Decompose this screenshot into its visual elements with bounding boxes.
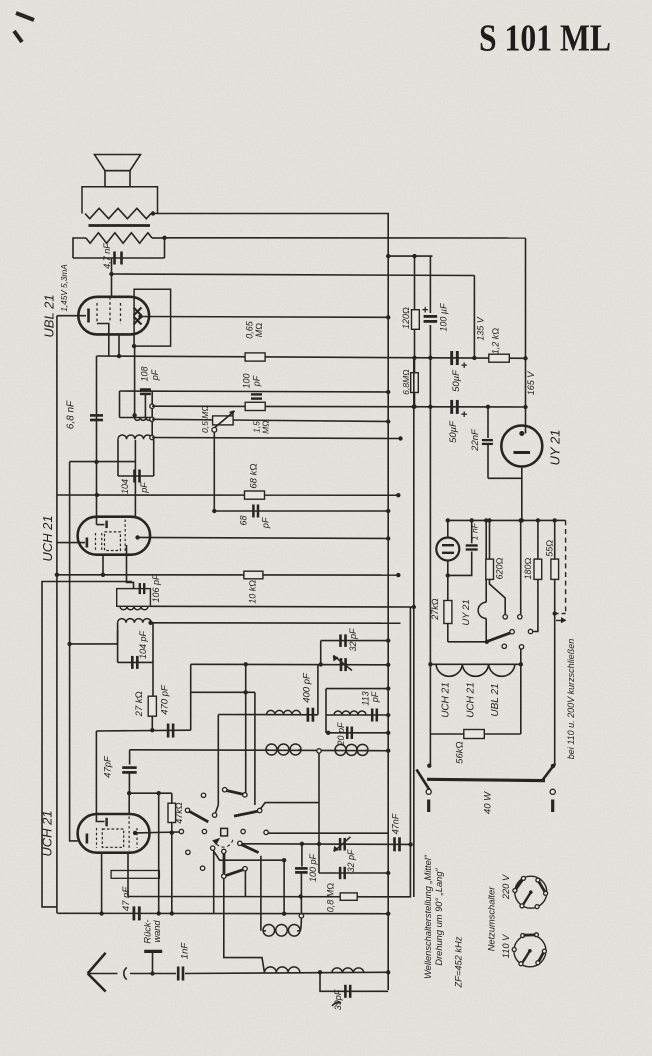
voltage selector lever [488, 633, 511, 642]
coil osc A [267, 710, 301, 714]
mains switch left lever [417, 770, 430, 791]
switch contact right lever [258, 808, 262, 812]
wire h20 [70, 643, 118, 645]
band switch rotor square [221, 828, 228, 836]
capacitor 1nF lamp [471, 520, 473, 543]
wire v413 middle [413, 358, 415, 897]
wire h22 [191, 691, 255, 693]
capacitor 39pF [344, 985, 347, 998]
wire h36 antenna line [153, 973, 177, 975]
svg-text:UBL 21: UBL 21 [490, 683, 501, 716]
resistor 6,8 MOhm [414, 358, 416, 373]
capacitor 47nF [132, 906, 135, 920]
svg-text:Drehung um 90° „Lang“: Drehung um 90° „Lang“ [434, 867, 444, 965]
svg-text:0,65: 0,65 [244, 320, 254, 339]
svg-text:620Ω: 620Ω [494, 557, 504, 579]
wire h25 113 coil line [326, 714, 388, 716]
svg-text:UCH 21: UCH 21 [466, 682, 477, 718]
mains switch left terminal [427, 800, 430, 813]
wire v osc to switch [217, 715, 219, 806]
svg-text:pF: pF [150, 369, 160, 381]
wire h10 pot line [152, 419, 388, 421]
mains switch right lever [541, 764, 555, 782]
svg-text:1,45V 5,3mA: 1,45V 5,3mA [60, 264, 69, 312]
tube UY21 rectifier [501, 426, 542, 467]
wire h18 to 413 vertical [150, 605, 413, 608]
mains cord bar 40W [427, 779, 545, 780]
UCH21-II bottom leads [101, 853, 103, 914]
svg-text:Rück-: Rück- [142, 919, 152, 943]
coil IF2b [118, 619, 152, 623]
svg-text:pF: pF [370, 691, 380, 703]
antenna coil A [265, 967, 300, 973]
IF2b left lead down [117, 623, 119, 644]
loudspeaker LS cone [95, 155, 141, 171]
antenna [88, 953, 106, 974]
loudspeaker magnet [105, 171, 130, 187]
capacitor 20pF [346, 727, 349, 740]
wire h line 520 [448, 519, 566, 521]
capacitor 100pF [251, 393, 262, 395]
svg-text:4,7 nF: 4,7 nF [102, 243, 112, 269]
coil osc C [335, 749, 338, 751]
capacitor 104pF first [117, 630, 119, 662]
wire 47k to h33 [171, 833, 173, 914]
UY21 cathode bottom [488, 467, 522, 479]
svg-text:pF: pF [260, 517, 270, 529]
UCH21-II top grid bar [105, 818, 107, 827]
resistor 0,8 MOhm [340, 893, 357, 900]
tube UBL21 envelope [78, 297, 149, 335]
wire UBL21 cathode return v11 [118, 334, 120, 356]
wire h4 AVC/grid line [112, 274, 475, 276]
capacitor 400pF [307, 708, 310, 722]
tube UCH21 II envelope [78, 814, 150, 853]
resistor 10 kOhm [244, 571, 263, 579]
wire h23 113 box top [326, 688, 388, 690]
resistor 55 Ohm [554, 520, 556, 559]
switch contact [212, 813, 216, 817]
svg-text:pF: pF [139, 482, 149, 494]
wire h8 IF1 top line [120, 391, 389, 392]
capacitor 100pF bottom [301, 844, 303, 867]
svg-text:100 µF: 100 µF [438, 303, 448, 332]
svg-text:68 kΩ: 68 kΩ [249, 463, 260, 488]
capacitor 104pF first circuit [117, 439, 119, 476]
resistor 1,2 kOhm [489, 354, 510, 362]
UCH21-I cathode lead down [102, 555, 104, 575]
wire v525 165V rail [525, 238, 527, 434]
coil osc B [266, 749, 269, 751]
wire osc section vert 245 [245, 664, 247, 795]
wire h32 osc anode line [128, 607, 410, 897]
wire v158 down [158, 793, 160, 913]
svg-text:S 101 ML: S 101 ML [479, 18, 611, 60]
switch contact feedback [238, 841, 242, 845]
dial lamp [447, 520, 449, 537]
svg-text:+: + [422, 304, 429, 316]
UCH21-II inner box [102, 829, 123, 847]
wire v2 long left [56, 316, 58, 914]
wire v213 switch down [213, 850, 215, 913]
svg-text:pF: pF [251, 375, 261, 387]
heavy chassis bus v1 [387, 214, 389, 991]
terminal on osc line and vertical v319 [317, 749, 321, 753]
terminal circles IF1 [150, 404, 154, 408]
wire h3 tone cap wire [73, 257, 165, 259]
svg-text:106 pF: 106 pF [151, 574, 161, 603]
svg-text:50µF: 50µF [451, 369, 462, 392]
svg-text:47kΩ: 47kΩ [174, 802, 184, 824]
svg-text:ZF=452 kHz: ZF=452 kHz [453, 936, 463, 988]
wire C2 up [520, 520, 522, 614]
svg-text:6,8MΩ: 6,8MΩ [401, 369, 411, 395]
svg-text:108: 108 [139, 366, 149, 381]
switch lever vertical [223, 854, 226, 874]
capacitor 47pF [122, 766, 137, 769]
IF1 box left edge [119, 391, 121, 418]
wire switch line y860 [214, 852, 284, 860]
svg-text:Netzumschalter: Netzumschalter [486, 886, 496, 951]
band switch rotation arc [215, 840, 233, 847]
UBL21 grid dashes [96, 303, 98, 324]
svg-text:39pF: 39pF [333, 989, 343, 1010]
UBL21 cathode bar and lead [57, 315, 86, 317]
wire primary left lead [73, 238, 86, 258]
capacitor 32pF bottom [339, 867, 342, 879]
svg-text:1nF: 1nF [180, 942, 191, 960]
switch contact [201, 793, 205, 797]
wire h28 long osc line [130, 749, 389, 752]
svg-text:113: 113 [360, 691, 370, 705]
mains switch right terminal [551, 800, 554, 813]
wire h12 to UCH21 I grid [70, 461, 136, 463]
capacitor 50uF upper [450, 351, 453, 365]
resistor 180 Ohm [537, 520, 539, 559]
UCH21-I inner box [105, 532, 121, 551]
wire 47pF branch [129, 750, 131, 765]
wire v4 to UCH2 cathode [70, 462, 78, 841]
capacitor 6,8nF [90, 414, 103, 417]
switch contact 47k lever [185, 808, 189, 812]
capacitor 47nF second [393, 837, 396, 851]
voltage rosette 110V [514, 935, 546, 967]
switch contacts lower [186, 850, 190, 854]
wire v319 and 32pF line [318, 844, 320, 873]
resistor 0,65 MOhm [245, 353, 265, 361]
switch contacts middle row [179, 829, 183, 833]
capacitor 108pF [140, 388, 151, 391]
resistor 1,5 MOhm [245, 402, 265, 410]
wire h15 UCH1 anode line [137, 537, 389, 538]
UCH21-I anode dot [135, 535, 139, 539]
svg-text:50µF: 50µF [448, 420, 459, 443]
svg-text:220 V: 220 V [501, 874, 511, 900]
switch contact top pair with lever [223, 788, 227, 792]
capacitor 100uF electrolytic [429, 256, 431, 313]
UBL21 filament symbol [134, 308, 142, 316]
svg-text:68: 68 [238, 515, 248, 525]
svg-text:nF: nF [469, 522, 479, 533]
potentiometer 0,5 MOhm [213, 416, 234, 425]
output transformer core [89, 224, 151, 227]
wire 400pF link up [317, 665, 319, 715]
coil IF1a [120, 417, 153, 419]
resistor 27 kOhm left [148, 696, 156, 716]
svg-text:0,5 MΩ: 0,5 MΩ [200, 405, 210, 433]
wire chain right up [520, 649, 522, 664]
svg-text:32 pF: 32 pF [346, 849, 356, 873]
svg-text:100: 100 [241, 373, 251, 388]
coil 113pF [334, 711, 366, 715]
svg-text:UCH 21: UCH 21 [40, 515, 55, 561]
svg-text:20 pF: 20 pF [336, 722, 346, 747]
svg-text:1,2 kΩ: 1,2 kΩ [490, 328, 500, 355]
wire h19 IF2 to osc grid vert [151, 622, 401, 624]
svg-text:100 pF: 100 pF [308, 853, 318, 882]
svg-text:40 W: 40 W [483, 791, 494, 814]
resistor 68 kOhm [245, 491, 265, 499]
wire contact 266 line [268, 832, 388, 834]
wire h27 20pF line [326, 732, 388, 734]
wire v254 osc [254, 692, 256, 733]
svg-text:55Ω: 55Ω [544, 540, 554, 557]
UCH21-II cathode [86, 834, 89, 844]
page mark top-left [16, 13, 34, 20]
wire h16 cathode bus [57, 574, 398, 576]
svg-text:+: + [461, 409, 468, 421]
wire v6 to UCH2 top grid [96, 731, 104, 822]
dashed shorting link [565, 520, 567, 613]
svg-text:47pF: 47pF [103, 755, 114, 778]
wire h9 diode line with 1,5M [152, 405, 526, 408]
page mark bottom [332, 1002, 341, 1006]
svg-text:104: 104 [120, 479, 130, 494]
small box below tube II [111, 871, 159, 879]
svg-text:1: 1 [469, 535, 479, 540]
resistor 27 kOhm right [447, 575, 449, 600]
UCH21-I cathode [57, 542, 85, 544]
wire h24 osc tuned line [218, 714, 318, 716]
loudspeaker frame [82, 187, 105, 214]
wire h7 ground rail [97, 356, 526, 358]
voltage rosette 220V [515, 876, 547, 908]
wire h37 39pF loop [320, 972, 388, 991]
wire h5 [388, 255, 432, 257]
wire h11 coil line [152, 438, 401, 439]
svg-text:Wellenschalterstellung „Mittel: Wellenschalterstellung „Mittel“ [423, 854, 433, 979]
svg-text:MΩ: MΩ [260, 420, 270, 434]
resistor 56 kOhm [464, 730, 485, 739]
wire h33 47nF line [57, 912, 388, 914]
svg-text:400 pF: 400 pF [302, 672, 313, 703]
output transformer primary winding [86, 233, 152, 243]
wire grid lead UBL21 [111, 258, 113, 297]
wire to mains switch left [429, 734, 431, 766]
svg-text:bei 110 u. 200V kurzschließen: bei 110 u. 200V kurzschließen [566, 639, 576, 759]
svg-text:UBL 21: UBL 21 [41, 294, 56, 337]
UBL21 anode dot and line h6 [138, 314, 142, 318]
oscillator coil bottom [260, 856, 262, 931]
wire h2 B+ line to 165V rail [165, 237, 526, 239]
wire v430 down to heater chain [429, 358, 431, 665]
svg-text:47 nF: 47 nF [121, 886, 132, 911]
UBL21 beam plate lead [97, 324, 109, 357]
resistor 620 Ohm [489, 520, 491, 559]
UCH21-I triode grid lead down [127, 545, 134, 589]
capacitor Rueckwand [144, 950, 162, 953]
svg-text:UCH 21: UCH 21 [441, 682, 452, 718]
svg-text:UCH 21: UCH 21 [39, 810, 54, 856]
capacitor 113pF [371, 709, 374, 722]
coil IF1b [118, 435, 152, 439]
svg-text:165 V: 165 V [526, 371, 536, 396]
antenna coil B [332, 968, 364, 973]
UCH21-II anode dot and wire h30 [133, 831, 137, 835]
wire h29 osc grid line [129, 792, 172, 794]
trimmer 12pF [340, 658, 343, 671]
wire h641 [448, 641, 486, 643]
UCH21-I grid dashes [95, 533, 97, 551]
wire h1 speaker to bus [151, 213, 389, 215]
svg-text:UY 21: UY 21 [461, 599, 472, 625]
capacitor 22nF [487, 407, 489, 438]
svg-text:0,8 MΩ: 0,8 MΩ [325, 883, 335, 913]
wire primary right lead [152, 237, 165, 239]
heater chain bumps UCH21 UCH21 UBL21 [430, 663, 520, 665]
svg-text:135 V: 135 V [475, 316, 485, 341]
IF2 box with 106pF [117, 589, 151, 607]
resistor 47 kOhm [171, 793, 173, 803]
coil IF2a [120, 606, 148, 610]
svg-text:47nF: 47nF [391, 813, 401, 834]
svg-text:27kΩ: 27kΩ [430, 598, 440, 621]
svg-text:10 kΩ: 10 kΩ [247, 580, 257, 604]
capacitor 68pF [252, 505, 255, 518]
wire anode box to IF1 [134, 346, 136, 417]
svg-text:56kΩ: 56kΩ [455, 741, 466, 764]
wire h21 trimmer line [191, 663, 389, 666]
svg-text:wand: wand [152, 920, 162, 943]
svg-text:120Ω: 120Ω [401, 307, 411, 329]
UCH21-II grid dashes [96, 828, 98, 848]
wire 27k vertical [152, 662, 154, 696]
capacitor 32pF upper [320, 641, 322, 665]
wire h14 with 68pF [214, 510, 388, 512]
wire h13 AVC bus [57, 494, 398, 496]
wire v5 with 6.8nF [96, 356, 98, 525]
wire v474 from h4 [473, 276, 475, 358]
wire v284 [283, 860, 285, 914]
svg-text:180Ω: 180Ω [523, 557, 533, 579]
UCH21-I top grid lead [97, 524, 105, 526]
svg-text:MΩ: MΩ [254, 323, 264, 337]
svg-text:32 pF: 32 pF [348, 628, 358, 652]
IF1 right vertical [151, 391, 153, 438]
wire v245 switch down [244, 871, 246, 897]
capacitor 4,7nF [113, 252, 116, 265]
wire h17 left return [42, 582, 132, 907]
capacitor 470pF [167, 724, 170, 738]
chain loop with 56k [429, 664, 431, 734]
svg-text:UY 21: UY 21 [547, 430, 562, 466]
wire osc feedback line y844 [242, 843, 411, 846]
svg-text:110 V: 110 V [501, 934, 511, 958]
wire from right contact over to v319 [261, 803, 320, 809]
wire switch to ant coil [224, 878, 265, 972]
svg-text:104 pF: 104 pF [138, 630, 148, 659]
svg-text:22nF: 22nF [470, 428, 481, 452]
tube UCH21 I envelope [78, 517, 151, 555]
wire to osc coil [300, 897, 302, 914]
switch lever feedback [242, 845, 259, 853]
capacitor 50uF lower [450, 400, 453, 414]
voltage selector contacts [503, 615, 507, 619]
wire 470pF link up [190, 664, 192, 730]
capacitor 1nF antenna [177, 967, 180, 981]
wire pot wiper down [213, 432, 215, 511]
svg-text:27 kΩ: 27 kΩ [134, 691, 145, 717]
switch lever bottom [226, 870, 244, 876]
voice coil winding [85, 208, 151, 218]
wire 113 left vert [325, 689, 327, 733]
wire v120 with 120 Ohm [414, 256, 416, 310]
svg-text:6,8 nF: 6,8 nF [66, 400, 77, 429]
box around UBL21 output section [134, 289, 171, 346]
svg-text:470 pF: 470 pF [160, 684, 171, 715]
trimmer capacitor on y844 [339, 838, 342, 851]
wire h26 470pF line [96, 729, 190, 732]
UCH21-II grid lead from 47pF [128, 793, 130, 814]
